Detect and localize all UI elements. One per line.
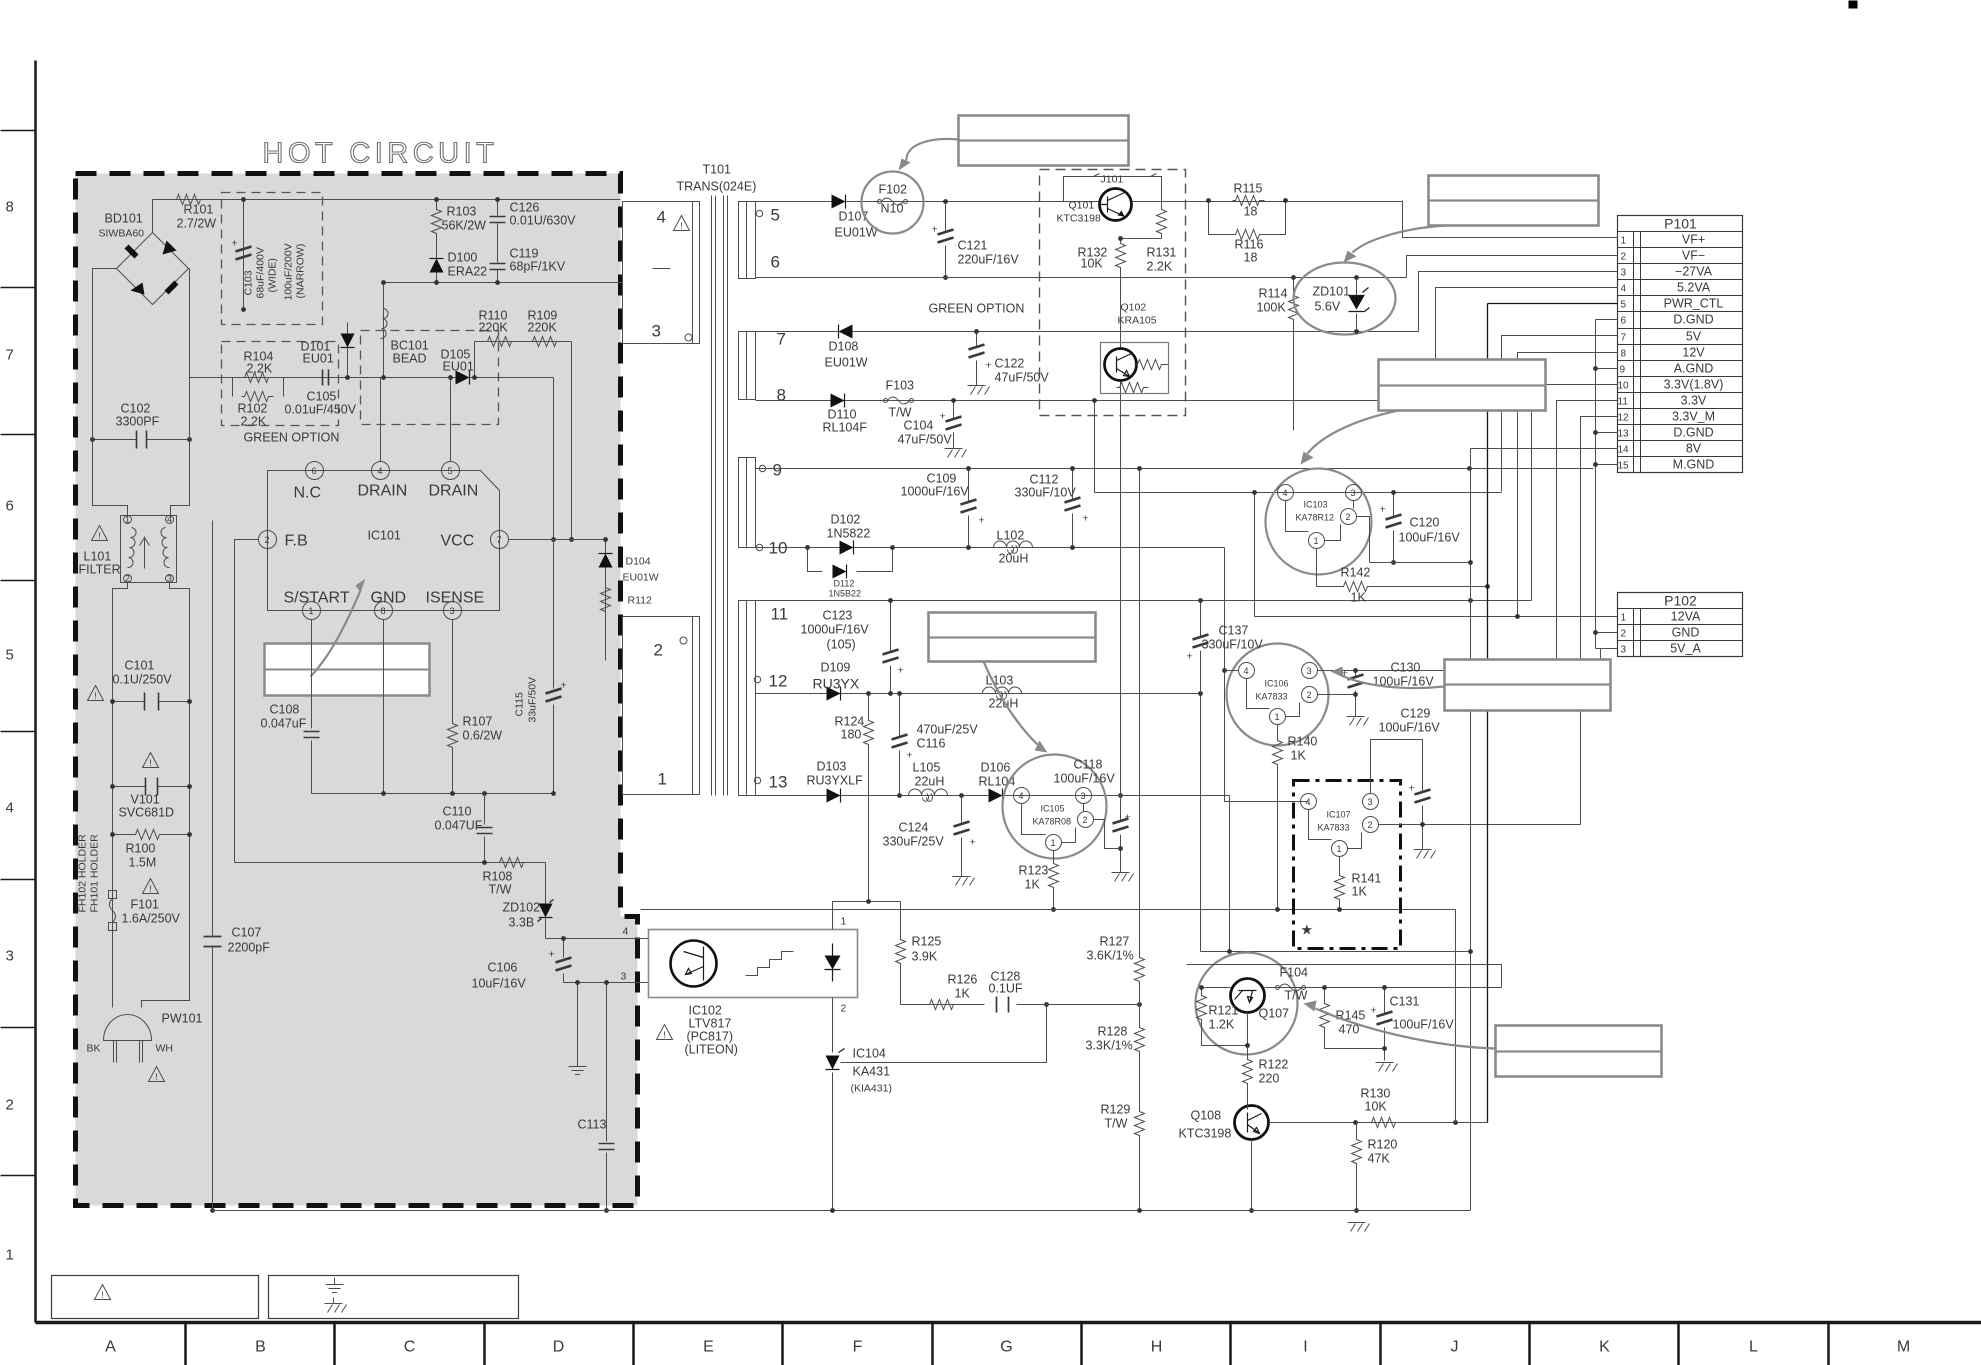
svg-text:D106: D106: [981, 761, 1011, 775]
IC106 output line + capacitor C130: [1318, 670, 1557, 672]
resistor R120: [1356, 1123, 1358, 1211]
wire hot top rail: [153, 199, 621, 201]
svg-text:V101: V101: [131, 793, 160, 807]
svg-text:ZD101: ZD101: [1313, 285, 1351, 299]
shunt reg IC104 KA431: [826, 1056, 840, 1070]
5V: [1502, 336, 1618, 492]
svg-text:C124: C124: [899, 821, 929, 835]
svg-text:(WIDE): (WIDE): [267, 258, 279, 292]
border frame bottom ruler: [36, 1321, 1981, 1325]
svg-text:8V: 8V: [1686, 442, 1702, 456]
inductor L105: [909, 789, 948, 801]
svg-text:+: +: [1371, 1005, 1377, 1017]
svg-text:R131: R131: [1147, 246, 1177, 260]
capacitor C121: [945, 202, 947, 278]
svg-text:R103: R103: [447, 205, 477, 219]
svg-text:KRA105: KRA105: [1118, 315, 1157, 327]
svg-text:1: 1: [6, 1247, 14, 1264]
diode D100: [436, 249, 438, 283]
svg-text:12V: 12V: [1682, 346, 1705, 360]
svg-text:A: A: [105, 1339, 116, 1356]
svg-text:2: 2: [265, 535, 270, 545]
svg-text:★: ★: [1301, 922, 1314, 938]
svg-text:3: 3: [621, 971, 627, 983]
svg-text:D109: D109: [821, 661, 851, 675]
rail 10 to IC106 input: [1225, 548, 1309, 802]
svg-text:R128: R128: [1098, 1025, 1128, 1039]
svg-text:3.3K/1%: 3.3K/1%: [1086, 1039, 1133, 1053]
svg-text:15: 15: [1618, 461, 1630, 472]
wire to opto pin4: [546, 938, 649, 940]
fuse F102 + gray circle: [862, 172, 924, 234]
diode D105: [456, 371, 470, 385]
svg-text:3300PF: 3300PF: [116, 415, 160, 429]
svg-text:IC107: IC107: [1327, 810, 1351, 820]
svg-text:2: 2: [125, 574, 130, 584]
svg-text:6: 6: [6, 498, 14, 515]
svg-text:D100: D100: [448, 251, 478, 265]
svg-text:EU01W: EU01W: [835, 226, 878, 240]
svg-text:100uF/16V: 100uF/16V: [1054, 772, 1116, 786]
svg-text:ERA22: ERA22: [448, 265, 488, 279]
capacitor C103 dashed box: [222, 193, 323, 325]
top middle callout: [959, 116, 1129, 166]
svg-text:330uF/25V: 330uF/25V: [883, 835, 945, 849]
svg-text:3.3V: 3.3V: [1681, 394, 1707, 408]
svg-text:L102: L102: [997, 529, 1025, 543]
svg-text:(KIA431): (KIA431): [851, 1083, 892, 1095]
svg-text:2: 2: [841, 1003, 847, 1015]
svg-text:5V: 5V: [1686, 330, 1702, 344]
diode D106: [989, 789, 1003, 803]
svg-text:3.3V(1.8V): 3.3V(1.8V): [1664, 378, 1724, 392]
M.GND: [1596, 464, 1618, 466]
capacitor C102: [93, 439, 190, 441]
svg-text:3: 3: [1621, 268, 1627, 279]
mid callout above L103: [929, 613, 1096, 662]
capacitor C126: [497, 200, 499, 233]
svg-text:6: 6: [1621, 316, 1627, 327]
svg-text:C108: C108: [270, 703, 300, 717]
capacitor C129: [1371, 740, 1423, 850]
rail 13 (8V input): [756, 795, 1230, 797]
svg-text:7: 7: [777, 330, 786, 349]
svg-text:1: 1: [658, 770, 667, 789]
svg-text:C118: C118: [1074, 758, 1103, 772]
svg-text:1K: 1K: [1351, 591, 1367, 605]
resistor R140: [1277, 725, 1279, 910]
wire HV lower rail: [384, 282, 644, 284]
wire VCC right: [509, 539, 606, 541]
capacitor C110: [484, 794, 486, 863]
12V: [1518, 353, 1618, 617]
svg-text:2: 2: [1368, 820, 1373, 830]
svg-text:2: 2: [1307, 690, 1312, 700]
svg-text:14: 14: [1618, 445, 1630, 456]
svg-text:RU3YXLF: RU3YXLF: [807, 774, 864, 788]
capacitor C120: [1393, 493, 1395, 563]
svg-text:KA7833: KA7833: [1318, 823, 1350, 833]
svg-text:10K: 10K: [1081, 257, 1104, 271]
line filter L101: [79, 515, 177, 584]
svg-text:6: 6: [771, 253, 780, 272]
inductor L102: [994, 541, 1033, 553]
svg-text:R127: R127: [1100, 935, 1130, 949]
primary ground bus wire: [312, 793, 554, 795]
svg-text:10K: 10K: [1365, 1100, 1388, 1114]
svg-text:180: 180: [841, 728, 862, 742]
svg-text:4: 4: [623, 926, 629, 938]
capacitor C119: [497, 233, 499, 283]
resistor R101: [174, 195, 206, 205]
corner registration mark: [1849, 1, 1858, 9]
capacitor C105: [323, 370, 329, 386]
svg-text:R115: R115: [1234, 182, 1263, 196]
callout box (empty) near S/START: [265, 644, 430, 696]
wire opto pin3 line: [564, 982, 649, 984]
svg-text:HOT CIRCUIT: HOT CIRCUIT: [263, 138, 499, 170]
svg-text:220: 220: [1259, 1072, 1280, 1086]
svg-text:F: F: [853, 1339, 863, 1356]
svg-text:+: +: [1409, 783, 1415, 795]
fuse F101 with holder: [109, 891, 181, 931]
svg-text:D.GND: D.GND: [1673, 426, 1713, 440]
secondary winding 5-6: [739, 202, 756, 279]
opto pin1/2 wires: [833, 902, 901, 1053]
regulator IC103 KA78R12 + rail: [1095, 401, 1502, 493]
svg-text:KTC3198: KTC3198: [1057, 213, 1102, 225]
svg-text:R141: R141: [1352, 872, 1382, 886]
svg-text:1: 1: [1275, 712, 1280, 722]
diode D102: [840, 541, 854, 555]
svg-text:5.6V: 5.6V: [1315, 300, 1341, 314]
secondary ground bottom rail: [213, 1210, 1471, 1212]
D.GND pin6: [1596, 320, 1618, 649]
svg-text:VF+: VF+: [1682, 233, 1705, 247]
svg-text:FH102 HOLDER: FH102 HOLDER: [77, 834, 89, 913]
svg-text:18: 18: [1244, 251, 1258, 265]
svg-text:2: 2: [654, 641, 663, 660]
fuse F104: [1276, 984, 1306, 991]
rail 7 (-27V): [756, 331, 1419, 333]
svg-text:220uF/16V: 220uF/16V: [958, 253, 1020, 267]
diode D109: [827, 687, 841, 701]
svg-text:100K: 100K: [1257, 301, 1287, 315]
svg-text:KA78R12: KA78R12: [1296, 513, 1335, 523]
svg-text:L: L: [1749, 1339, 1758, 1356]
svg-text:N.C: N.C: [294, 485, 322, 502]
svg-text:4: 4: [1244, 666, 1249, 676]
svg-text:S/START: S/START: [284, 590, 350, 607]
svg-text:R124: R124: [835, 715, 865, 729]
svg-text:11: 11: [1618, 397, 1629, 408]
resistor R116: [1233, 230, 1265, 240]
svg-text:F103: F103: [886, 379, 915, 393]
svg-text:3: 3: [450, 606, 455, 616]
resistor R108: [497, 858, 529, 868]
rail 12 (5V): [756, 693, 1201, 695]
svg-text:2: 2: [1346, 512, 1351, 522]
Q101 dashed box: [1040, 170, 1186, 416]
svg-text:R114: R114: [1259, 287, 1288, 301]
svg-text:6: 6: [312, 466, 317, 476]
svg-text:C129: C129: [1401, 707, 1431, 721]
resistor R131: [1157, 207, 1167, 239]
svg-text:12: 12: [769, 672, 788, 691]
resistor R145: [1325, 988, 1385, 1049]
svg-text:C115: C115: [514, 692, 526, 716]
svg-text:18: 18: [1244, 205, 1258, 219]
svg-text:SVC681D: SVC681D: [119, 806, 175, 820]
Q107 callout: [1496, 1026, 1662, 1077]
svg-text:T/W: T/W: [1285, 989, 1308, 1003]
svg-text:D102: D102: [831, 513, 861, 527]
svg-text:7: 7: [6, 347, 14, 364]
power plug PW101: [87, 1012, 203, 1063]
3.3V(1.8V): [1532, 385, 1618, 601]
svg-text:+: +: [898, 665, 904, 677]
svg-text:A.GND: A.GND: [1674, 362, 1714, 376]
svg-text:47uF/50V: 47uF/50V: [995, 371, 1050, 385]
svg-text:1N5822: 1N5822: [827, 527, 871, 541]
svg-text:C109: C109: [927, 472, 957, 486]
svg-text:+: +: [940, 411, 946, 423]
divider R127 R128 R129: [1139, 469, 1141, 1211]
svg-text:C121: C121: [958, 239, 988, 253]
svg-text:1: 1: [125, 515, 130, 525]
svg-text:C104: C104: [904, 419, 934, 433]
svg-text:IC105: IC105: [1041, 804, 1065, 814]
svg-text:1N5B22: 1N5B22: [829, 589, 862, 599]
inductor L103: [983, 687, 1022, 699]
svg-text:+: +: [549, 949, 555, 961]
C130 callout: [1445, 660, 1611, 711]
wire FB bottom line: [235, 862, 546, 864]
svg-text:GND: GND: [371, 590, 407, 607]
svg-text:R107: R107: [463, 715, 493, 729]
svg-text:R122: R122: [1259, 1058, 1289, 1072]
svg-text:C130: C130: [1391, 661, 1421, 675]
svg-text:KA78R08: KA78R08: [1033, 817, 1072, 827]
svg-text:8: 8: [6, 199, 14, 216]
svg-text:1.2K: 1.2K: [1209, 1018, 1235, 1032]
svg-text:2.7/2W: 2.7/2W: [177, 217, 217, 231]
svg-text:RU3YX: RU3YX: [813, 676, 860, 692]
left column wires: [113, 583, 190, 1008]
svg-text:G: G: [1000, 1339, 1012, 1356]
svg-text:4: 4: [6, 800, 14, 817]
svg-text:T101: T101: [703, 163, 732, 177]
svg-text:(105): (105): [827, 638, 856, 652]
svg-text:470uF/25V: 470uF/25V: [917, 723, 979, 737]
svg-text:GREEN OPTION: GREEN OPTION: [244, 431, 340, 445]
svg-text:2: 2: [1621, 629, 1627, 640]
capacitor C113: [606, 983, 608, 1211]
Q107 emitter down / resistor R122: [1247, 1013, 1249, 1106]
svg-text:LTV817: LTV817: [689, 1017, 732, 1031]
wire GND pin down: [383, 620, 385, 794]
svg-text:0.6/2W: 0.6/2W: [463, 729, 503, 743]
svg-text:ZD102: ZD102: [503, 901, 541, 915]
svg-text:+: +: [232, 238, 238, 250]
resistor R114: [1293, 278, 1295, 431]
svg-text:D110: D110: [828, 408, 857, 422]
svg-text:EU01: EU01: [303, 352, 334, 366]
svg-text:220K: 220K: [528, 321, 558, 335]
svg-text:330uF/10V: 330uF/10V: [1202, 638, 1264, 652]
svg-text:KA7833: KA7833: [1256, 692, 1288, 702]
svg-text:1: 1: [841, 916, 847, 928]
P102 12VA GND stubs: [1596, 633, 1618, 660]
IC107 output to 3.3V_M: [1370, 810, 1372, 812]
border frame left ruler: [34, 61, 37, 1323]
svg-text:IC103: IC103: [1304, 500, 1328, 510]
svg-text:Q107: Q107: [1259, 1007, 1290, 1021]
svg-text:13: 13: [769, 773, 788, 792]
resistors R110 R109 startup: [475, 342, 572, 378]
svg-text:1: 1: [309, 606, 314, 616]
wires IC101 drains up: [381, 378, 451, 462]
zener ZD101 + gray ellipse: [1294, 263, 1396, 335]
svg-text:R112: R112: [628, 595, 652, 607]
svg-text:100uF/16V: 100uF/16V: [1393, 1018, 1455, 1032]
svg-text:47K: 47K: [1368, 1152, 1391, 1166]
transistor Q102: [1101, 302, 1169, 394]
svg-text:GREEN OPTION: GREEN OPTION: [929, 302, 1025, 316]
svg-text:C116: C116: [917, 737, 946, 751]
wire F104 upper link: [1187, 965, 1502, 988]
svg-text:9: 9: [773, 461, 782, 480]
svg-text:4: 4: [378, 466, 383, 476]
svg-text:5.2VA: 5.2VA: [1677, 281, 1711, 295]
rail 9 (A.GND): [756, 468, 1594, 470]
svg-text:D108: D108: [829, 340, 859, 354]
svg-text:VCC: VCC: [441, 533, 475, 550]
svg-text:0.01U/630V: 0.01U/630V: [510, 214, 577, 228]
svg-text:2200pF: 2200pF: [228, 941, 271, 955]
resistor R124: [868, 694, 870, 902]
svg-text:I: I: [1303, 1339, 1307, 1356]
svg-text:R102: R102: [238, 402, 268, 416]
diode D107: [832, 195, 846, 209]
svg-text:33uF/50V: 33uF/50V: [527, 677, 539, 723]
capacitor C109: [968, 469, 970, 548]
svg-text:−27VA: −27VA: [1675, 265, 1713, 279]
wires bridge to filter: [93, 269, 190, 516]
svg-text:DRAIN: DRAIN: [358, 483, 408, 500]
svg-text:R130: R130: [1361, 1087, 1391, 1101]
wire bridge top to rail: [152, 200, 154, 233]
svg-text:P102: P102: [1664, 593, 1697, 609]
svg-text:3.3B: 3.3B: [509, 916, 535, 930]
transistor Q107: [1231, 979, 1290, 1021]
resistor R123: [1053, 851, 1055, 910]
regulator IC105 KA78R08: [1003, 755, 1107, 859]
wire S/START down: [311, 620, 313, 794]
rail 5 (main output): [756, 201, 1403, 203]
green option dashed box (hot): [222, 342, 339, 426]
svg-text:+: +: [1187, 651, 1193, 663]
svg-text:(PC817): (PC817): [687, 1030, 734, 1044]
svg-text:3: 3: [1351, 488, 1356, 498]
secondary winding 9-10: [739, 458, 756, 548]
svg-text:100uF/16V: 100uF/16V: [1379, 721, 1441, 735]
resistor R115: [1233, 196, 1265, 206]
primary winding box 2/1: [623, 617, 700, 795]
svg-text:C110: C110: [443, 805, 472, 819]
svg-text:EU01: EU01: [443, 360, 474, 374]
vertical 8V / misc bus: [1456, 449, 1471, 1211]
svg-text:3: 3: [1621, 645, 1627, 656]
svg-text:+: +: [561, 680, 567, 692]
svg-text:R101: R101: [184, 203, 214, 217]
rail 11: [756, 600, 1532, 602]
svg-text:2: 2: [1621, 252, 1627, 263]
svg-text:F101: F101: [131, 898, 160, 912]
transistor Q108: [1179, 1106, 1269, 1141]
svg-text:C119: C119: [510, 247, 539, 261]
svg-text:D112: D112: [834, 579, 855, 589]
svg-text:F.B: F.B: [285, 533, 308, 550]
5.2VA: [1436, 288, 1618, 401]
svg-text:R140: R140: [1288, 735, 1318, 749]
resistor R141: [1339, 857, 1341, 910]
svg-text:D.GND: D.GND: [1673, 313, 1713, 327]
capacitor C108: [304, 732, 320, 738]
svg-text:4: 4: [167, 515, 172, 525]
resistor R121: [1202, 988, 1248, 1046]
svg-text:R108: R108: [483, 870, 513, 884]
svg-text:L101: L101: [84, 550, 112, 564]
svg-text:0.01uF/450V: 0.01uF/450V: [285, 403, 357, 417]
svg-text:C103: C103: [243, 270, 255, 295]
svg-text:EU01W: EU01W: [825, 356, 868, 370]
svg-text:GND: GND: [1672, 626, 1700, 640]
svg-text:+: +: [1380, 504, 1386, 516]
8V: [1471, 448, 1618, 450]
svg-text:BC101: BC101: [391, 339, 429, 353]
svg-text:13: 13: [1618, 429, 1630, 440]
svg-text:3.6K/1%: 3.6K/1%: [1087, 949, 1134, 963]
capacitor C112: [1072, 469, 1074, 548]
svg-text:3.9K: 3.9K: [912, 950, 938, 964]
svg-text:T/W: T/W: [889, 406, 912, 420]
svg-text:10: 10: [1618, 381, 1630, 392]
svg-text:3: 3: [1307, 666, 1312, 676]
svg-text:IC104: IC104: [853, 1047, 886, 1061]
resistor R100: [116, 829, 186, 842]
svg-text:0.1U/250V: 0.1U/250V: [113, 673, 173, 687]
svg-text:VF−: VF−: [1682, 249, 1705, 263]
svg-text:C102: C102: [121, 402, 151, 416]
svg-text:R100: R100: [126, 842, 156, 856]
resistor R103: [436, 200, 438, 249]
diode D103: [827, 789, 841, 803]
core: [712, 196, 728, 796]
svg-text:20uH: 20uH: [999, 552, 1029, 566]
svg-text:(NARROW): (NARROW): [295, 244, 307, 299]
svg-text:22uH: 22uH: [915, 775, 945, 789]
svg-text:IC102: IC102: [689, 1004, 722, 1018]
capacitor C124: [961, 796, 963, 877]
resistor R132: [1120, 239, 1122, 241]
svg-text:2: 2: [1083, 815, 1088, 825]
svg-text:C105: C105: [307, 390, 337, 404]
capacitor C104: [953, 401, 955, 449]
svg-text:R120: R120: [1368, 1138, 1398, 1152]
svg-text:ISENSE: ISENSE: [426, 590, 485, 607]
svg-text:8: 8: [1621, 349, 1627, 360]
